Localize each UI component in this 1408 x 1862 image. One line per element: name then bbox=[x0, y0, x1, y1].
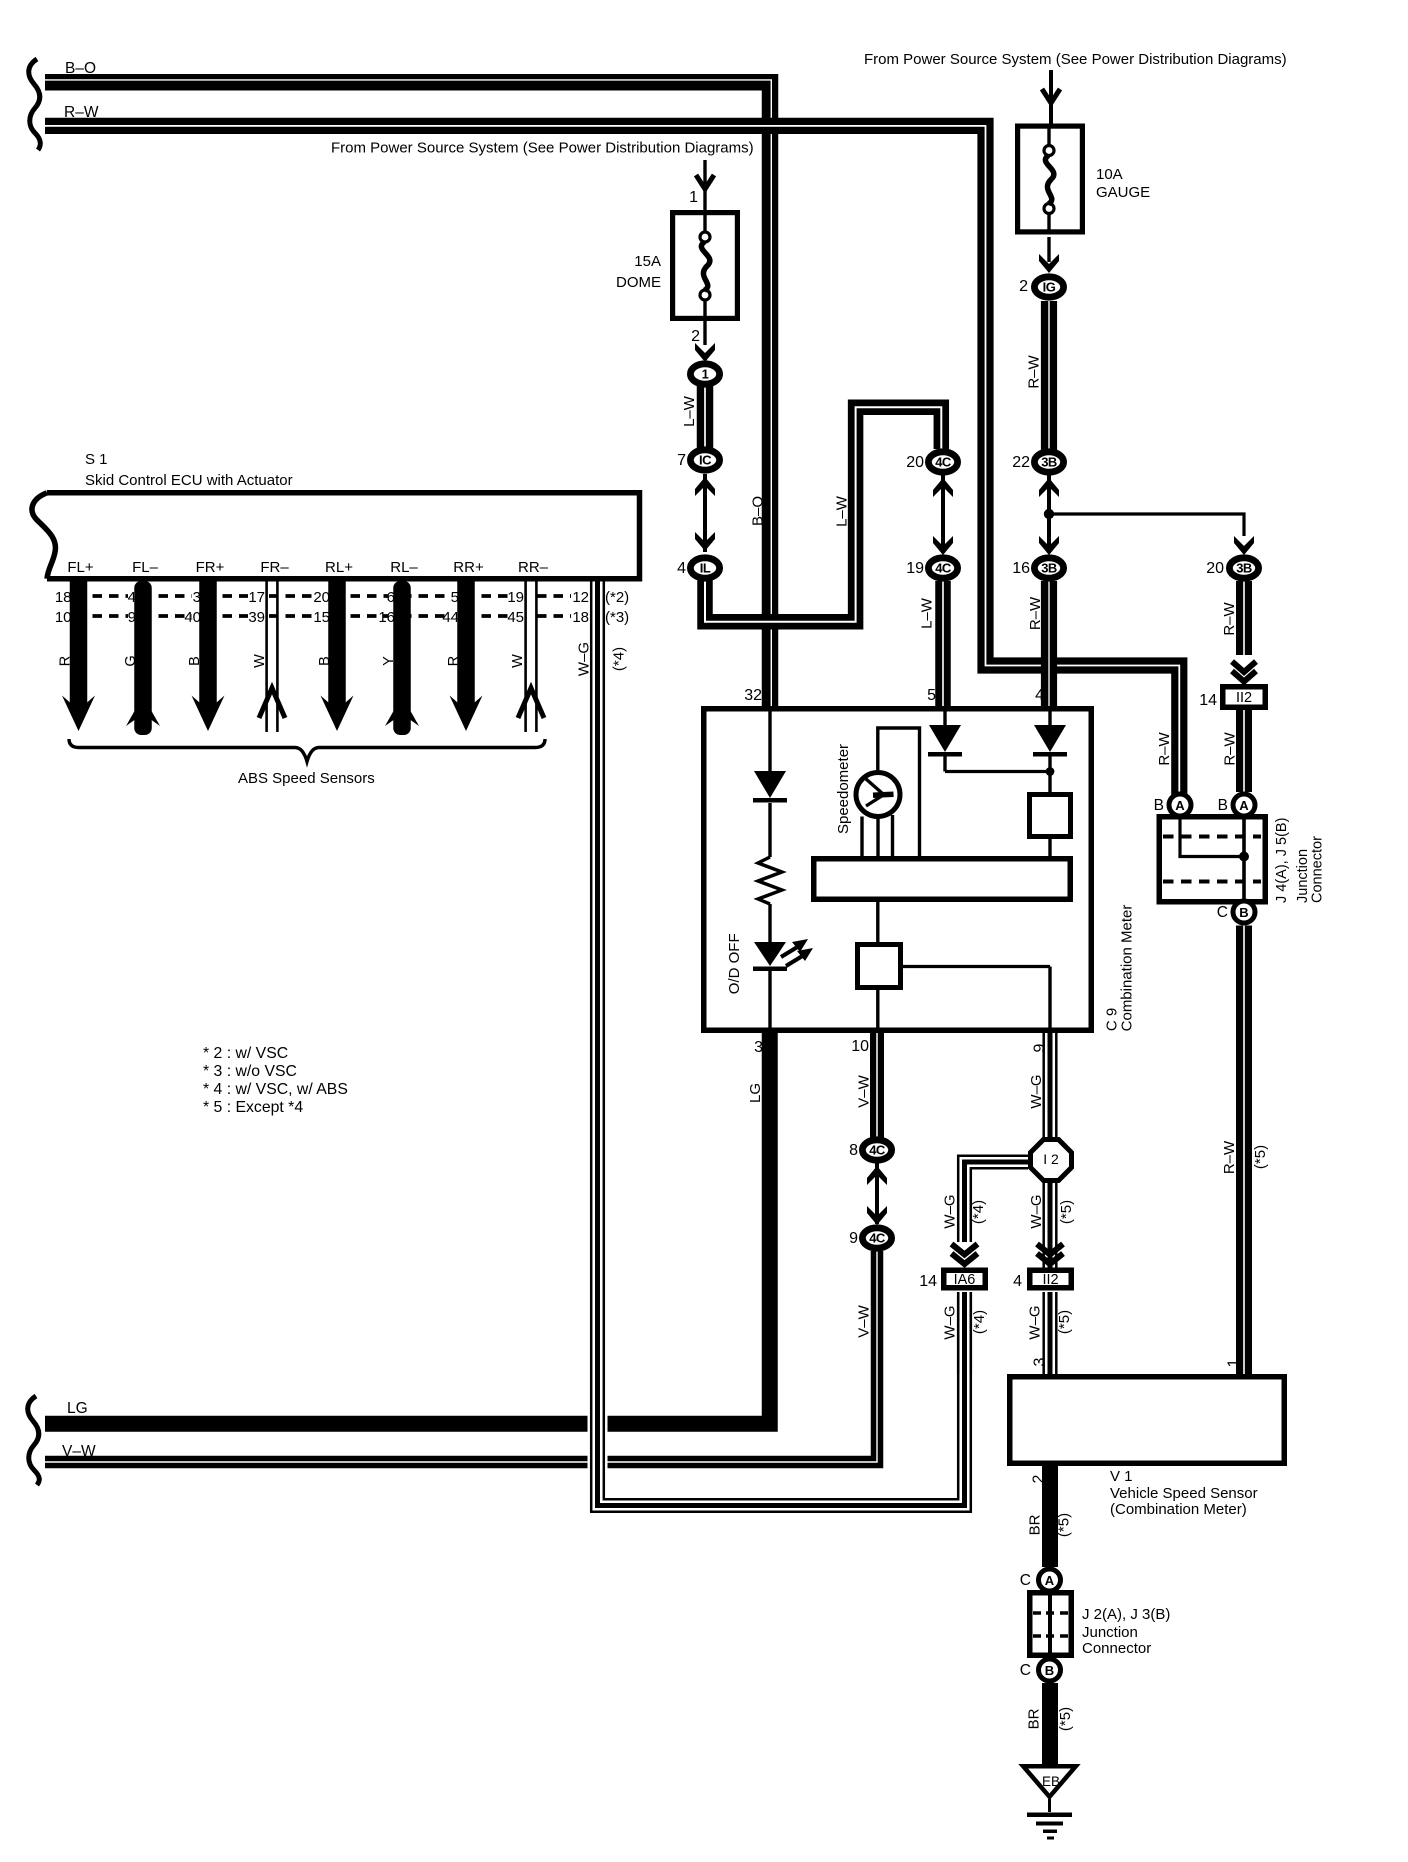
svg-text:40: 40 bbox=[184, 609, 201, 626]
svg-text:20: 20 bbox=[1206, 560, 1224, 577]
svg-text:Combination Meter: Combination Meter bbox=[1118, 905, 1135, 1032]
svg-text:EB: EB bbox=[1042, 1774, 1060, 1789]
svg-text:W–G: W–G bbox=[1028, 1194, 1045, 1228]
svg-text:DOME: DOME bbox=[616, 274, 661, 291]
svg-text:3: 3 bbox=[1032, 1357, 1049, 1366]
svg-text:32: 32 bbox=[744, 687, 762, 704]
svg-text:W–G: W–G bbox=[575, 642, 592, 676]
svg-text:10A: 10A bbox=[1096, 166, 1123, 183]
svg-text:45: 45 bbox=[507, 609, 524, 626]
svg-text:C: C bbox=[1217, 904, 1228, 921]
svg-text:FR+: FR+ bbox=[196, 559, 225, 576]
svg-text:B: B bbox=[1218, 797, 1228, 814]
svg-text:C: C bbox=[1020, 1662, 1031, 1679]
svg-text:W: W bbox=[252, 654, 268, 668]
svg-text:V–W: V–W bbox=[62, 1443, 96, 1460]
svg-text:6: 6 bbox=[387, 589, 395, 606]
svg-text:II2: II2 bbox=[1236, 690, 1252, 706]
svg-text:5: 5 bbox=[451, 589, 459, 606]
svg-text:L–W: L–W bbox=[681, 395, 698, 427]
svg-text:B: B bbox=[187, 656, 203, 666]
svg-text:16: 16 bbox=[378, 609, 395, 626]
svg-text:9: 9 bbox=[128, 609, 136, 626]
svg-text:W–G: W–G bbox=[1026, 1305, 1043, 1339]
svg-text:3: 3 bbox=[193, 589, 201, 606]
svg-text:R–W: R–W bbox=[1156, 731, 1173, 765]
svg-text:14: 14 bbox=[1199, 692, 1217, 709]
svg-text:R–W: R–W bbox=[1221, 731, 1238, 765]
svg-text:W–G: W–G bbox=[941, 1194, 958, 1228]
svg-text:A: A bbox=[1239, 798, 1249, 813]
svg-text:(Combination Meter): (Combination Meter) bbox=[1110, 1501, 1247, 1518]
svg-text:(*4): (*4) bbox=[971, 1310, 988, 1334]
svg-text:Vehicle Speed Sensor: Vehicle Speed Sensor bbox=[1110, 1485, 1258, 1502]
svg-text:5: 5 bbox=[927, 687, 936, 704]
svg-text:W–G: W–G bbox=[1028, 1074, 1045, 1108]
svg-text:4C: 4C bbox=[935, 455, 952, 470]
svg-text:17: 17 bbox=[248, 589, 265, 606]
svg-text:W–G: W–G bbox=[941, 1305, 958, 1339]
svg-text:W: W bbox=[510, 654, 526, 668]
svg-text:10: 10 bbox=[851, 1038, 869, 1055]
svg-text:12: 12 bbox=[572, 589, 589, 606]
svg-text:7: 7 bbox=[677, 452, 686, 469]
svg-text:FR–: FR– bbox=[260, 559, 289, 576]
svg-text:V 1: V 1 bbox=[1110, 1468, 1133, 1485]
svg-text:BR: BR bbox=[1025, 1708, 1042, 1729]
svg-text:R–W: R–W bbox=[1221, 1140, 1238, 1174]
svg-text:2: 2 bbox=[1031, 1474, 1048, 1483]
svg-text:B: B bbox=[1154, 797, 1164, 814]
svg-text:RR–: RR– bbox=[518, 559, 549, 576]
svg-text:18: 18 bbox=[55, 589, 72, 606]
svg-text:S 1: S 1 bbox=[85, 451, 108, 468]
svg-text:* 5 : Except *4: * 5 : Except *4 bbox=[203, 1099, 303, 1116]
svg-text:GAUGE: GAUGE bbox=[1096, 184, 1150, 201]
svg-text:1: 1 bbox=[1226, 1358, 1243, 1367]
svg-text:8: 8 bbox=[849, 1142, 858, 1159]
svg-text:14: 14 bbox=[919, 1273, 937, 1290]
svg-text:* 4 : w/ VSC, w/ ABS: * 4 : w/ VSC, w/ ABS bbox=[203, 1081, 348, 1098]
svg-text:RL–: RL– bbox=[390, 559, 418, 576]
svg-text:3B: 3B bbox=[1236, 561, 1252, 576]
svg-text:B–O: B–O bbox=[65, 60, 96, 77]
svg-text:R: R bbox=[446, 656, 462, 666]
svg-text:LG: LG bbox=[67, 1400, 88, 1417]
svg-text:B: B bbox=[1045, 1663, 1054, 1678]
svg-text:4C: 4C bbox=[869, 1143, 886, 1158]
svg-text:B–O: B–O bbox=[749, 496, 766, 526]
svg-text:Connector: Connector bbox=[1082, 1640, 1151, 1657]
svg-text:(*5): (*5) bbox=[1252, 1145, 1269, 1169]
svg-text:IL: IL bbox=[700, 561, 711, 576]
svg-text:4: 4 bbox=[1035, 687, 1044, 704]
svg-text:4C: 4C bbox=[935, 561, 952, 576]
svg-text:V–W: V–W bbox=[855, 1074, 872, 1107]
svg-text:3B: 3B bbox=[1041, 561, 1057, 576]
svg-text:9: 9 bbox=[1032, 1043, 1049, 1052]
svg-text:1: 1 bbox=[689, 189, 698, 206]
svg-text:19: 19 bbox=[906, 560, 924, 577]
svg-text:4C: 4C bbox=[869, 1231, 886, 1246]
svg-text:R: R bbox=[58, 656, 74, 666]
svg-text:V–W: V–W bbox=[855, 1304, 872, 1337]
svg-text:BR: BR bbox=[1026, 1514, 1043, 1535]
svg-text:J 2(A), J 3(B): J 2(A), J 3(B) bbox=[1082, 1606, 1170, 1623]
svg-text:4: 4 bbox=[128, 589, 136, 606]
svg-text:RR+: RR+ bbox=[453, 559, 484, 576]
svg-text:II2: II2 bbox=[1042, 1272, 1058, 1288]
svg-text:I 2: I 2 bbox=[1043, 1151, 1059, 1167]
svg-text:Y: Y bbox=[381, 656, 397, 666]
svg-text:4: 4 bbox=[1013, 1273, 1022, 1290]
svg-text:1: 1 bbox=[702, 367, 709, 382]
svg-text:(*4): (*4) bbox=[970, 1200, 987, 1224]
svg-text:(*5): (*5) bbox=[1058, 1200, 1075, 1224]
svg-text:ABS Speed Sensors: ABS Speed Sensors bbox=[238, 770, 375, 787]
svg-text:R–W: R–W bbox=[1027, 596, 1044, 630]
svg-text:15: 15 bbox=[313, 609, 330, 626]
svg-text:R–W: R–W bbox=[64, 104, 99, 121]
svg-text:Junction: Junction bbox=[1082, 1624, 1138, 1641]
svg-text:Speedometer: Speedometer bbox=[835, 744, 852, 834]
svg-text:G: G bbox=[123, 655, 139, 666]
svg-text:* 3 : w/o VSC: * 3 : w/o VSC bbox=[203, 1063, 297, 1080]
svg-text:A: A bbox=[1045, 1573, 1055, 1588]
svg-text:(*2): (*2) bbox=[605, 589, 629, 606]
svg-text:2: 2 bbox=[691, 328, 700, 345]
svg-text:From Power Source System (See: From Power Source System (See Power Dist… bbox=[331, 140, 754, 157]
svg-text:(*5): (*5) bbox=[1056, 1310, 1073, 1334]
svg-text:IG: IG bbox=[1043, 280, 1056, 295]
svg-text:(*4): (*4) bbox=[610, 647, 627, 671]
svg-text:B: B bbox=[1239, 905, 1248, 920]
svg-text:LG: LG bbox=[747, 1083, 764, 1103]
svg-text:L–W: L–W bbox=[918, 597, 935, 629]
svg-text:From Power Source System (See: From Power Source System (See Power Dist… bbox=[864, 51, 1287, 68]
svg-text:J 4(A), J 5(B): J 4(A), J 5(B) bbox=[1274, 818, 1290, 903]
svg-text:20: 20 bbox=[313, 589, 330, 606]
svg-text:3B: 3B bbox=[1041, 455, 1057, 470]
svg-text:R–W: R–W bbox=[1025, 354, 1042, 388]
svg-text:18: 18 bbox=[572, 609, 589, 626]
svg-text:A: A bbox=[1175, 798, 1185, 813]
svg-text:2: 2 bbox=[1019, 278, 1028, 295]
svg-text:3: 3 bbox=[754, 1039, 763, 1056]
svg-text:Connector: Connector bbox=[1310, 836, 1326, 903]
svg-text:4: 4 bbox=[677, 560, 686, 577]
svg-text:C: C bbox=[1020, 1572, 1031, 1589]
svg-text:IA6: IA6 bbox=[954, 1272, 976, 1288]
svg-text:20: 20 bbox=[906, 454, 924, 471]
svg-text:22: 22 bbox=[1012, 454, 1030, 471]
svg-text:15A: 15A bbox=[634, 253, 661, 270]
svg-text:19: 19 bbox=[507, 589, 524, 606]
svg-text:(*3): (*3) bbox=[605, 609, 629, 626]
svg-text:39: 39 bbox=[248, 609, 265, 626]
svg-text:9: 9 bbox=[849, 1230, 858, 1247]
svg-text:Skid Control ECU with Actuator: Skid Control ECU with Actuator bbox=[85, 472, 293, 489]
svg-text:44: 44 bbox=[442, 609, 459, 626]
svg-text:L–W: L–W bbox=[833, 495, 850, 527]
svg-text:IC: IC bbox=[699, 453, 712, 468]
svg-text:* 2 : w/ VSC: * 2 : w/ VSC bbox=[203, 1045, 288, 1062]
svg-text:RL+: RL+ bbox=[325, 559, 353, 576]
svg-text:(*5): (*5) bbox=[1055, 1513, 1072, 1537]
svg-text:O/D OFF: O/D OFF bbox=[726, 933, 743, 994]
svg-text:R–W: R–W bbox=[1221, 601, 1238, 635]
svg-text:B: B bbox=[317, 656, 333, 666]
svg-text:FL+: FL+ bbox=[67, 559, 94, 576]
svg-text:10: 10 bbox=[55, 609, 72, 626]
svg-text:(*5): (*5) bbox=[1057, 1707, 1074, 1731]
svg-text:FL–: FL– bbox=[132, 559, 159, 576]
svg-text:16: 16 bbox=[1012, 560, 1030, 577]
